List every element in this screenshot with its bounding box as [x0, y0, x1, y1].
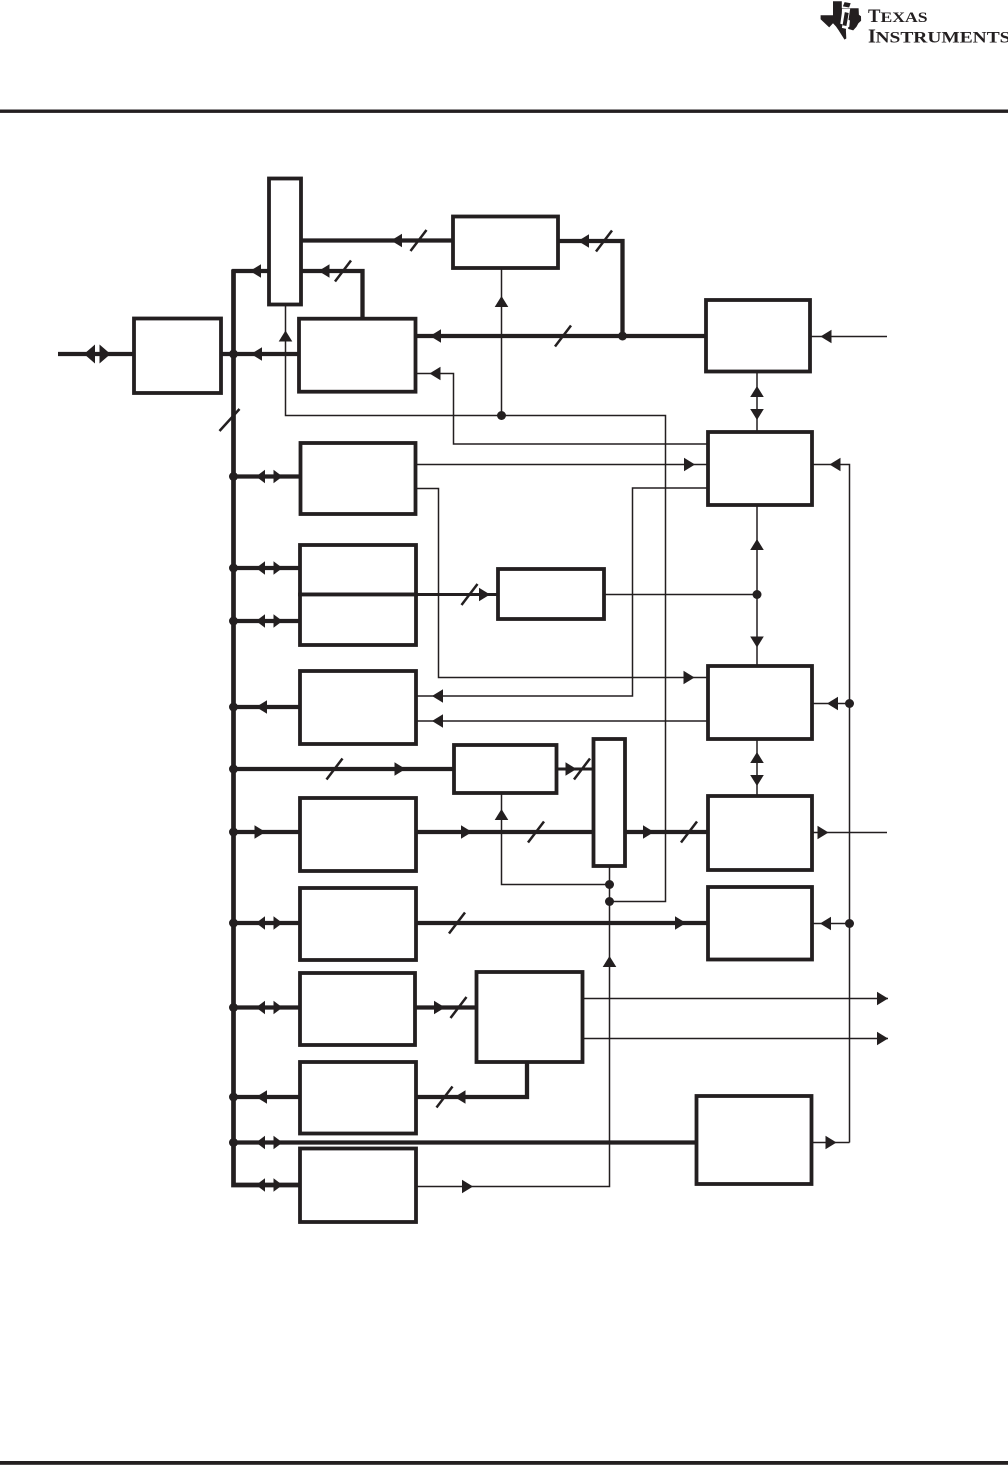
svg-text:NSTRUMENTS: NSTRUMENTS	[876, 29, 1008, 46]
svg-text:T: T	[868, 6, 881, 27]
svg-text:EXAS: EXAS	[881, 10, 928, 26]
